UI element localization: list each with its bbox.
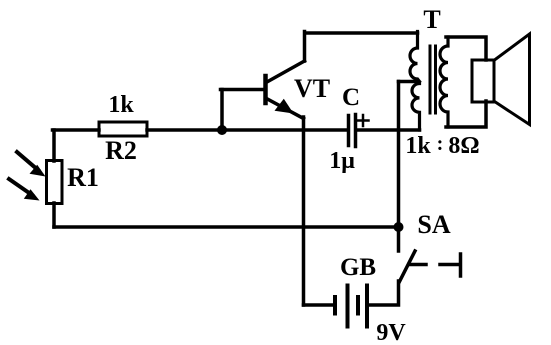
svg-text::: : — [437, 133, 444, 155]
label transformer ratio 1k : 8ohm — [405, 133, 479, 159]
wire SA to battery right — [369, 281, 399, 305]
svg-text:R1: R1 — [67, 163, 99, 192]
wire capacitor to transformer primary bottom — [357, 128, 420, 132]
wire secondary top to speaker — [446, 37, 486, 60]
wire tap vertical down to SA junction — [397, 82, 401, 228]
wire below R1 — [52, 203, 56, 227]
switch SA lever stub — [409, 263, 426, 267]
speaker body rect — [472, 60, 494, 102]
transistor Q VT collector diagonal — [266, 61, 305, 83]
transformer core — [430, 46, 436, 113]
transformer T primary winding upper — [410, 32, 420, 82]
svg-text:1k: 1k — [108, 92, 134, 118]
transformer T secondary winding — [440, 37, 448, 127]
wire top rail collector to transformer — [305, 31, 418, 35]
wire secondary bottom to speaker — [446, 101, 486, 127]
capacitor plus sign — [358, 115, 369, 126]
svg-text:9V: 9V — [376, 320, 406, 345]
svg-text:T: T — [423, 5, 440, 34]
wire left vertical above R1 — [52, 130, 56, 161]
resistor R1 photoresistor body — [47, 161, 63, 204]
wire transformer tap horizontal — [399, 80, 419, 84]
switch SA lever — [400, 251, 416, 282]
svg-text:VT: VT — [294, 74, 330, 103]
node junction dot SA — [394, 222, 404, 232]
light arrow 2 — [9, 179, 40, 201]
wire rail R1 to R2 — [53, 128, 100, 132]
wire base left vertical — [220, 90, 224, 130]
wire collector vertical — [303, 32, 307, 62]
wire rail R2 to capacitor — [147, 128, 346, 132]
svg-text:SA: SA — [417, 210, 450, 239]
switch SA upper terminal — [397, 227, 401, 251]
svg-text:1μ: 1μ — [329, 148, 355, 174]
svg-text:C: C — [342, 84, 360, 111]
svg-text:R2: R2 — [105, 136, 137, 165]
svg-text:1k: 1k — [405, 133, 431, 159]
wire battery left to emitter line — [304, 303, 334, 307]
battery GB plates — [335, 286, 367, 327]
node junction dot base — [217, 125, 227, 135]
wire emitter vertical down to battery — [302, 117, 306, 305]
transformer T primary winding lower — [412, 84, 420, 131]
transistor VT emitter with arrow — [267, 99, 304, 119]
switch SA fixed contact — [440, 254, 461, 276]
svg-text:GB: GB — [340, 254, 376, 281]
wire bottom rail — [54, 225, 398, 229]
transistor VT base bar — [263, 76, 268, 103]
wire base horizontal — [221, 88, 265, 92]
svg-text:8Ω: 8Ω — [448, 133, 479, 159]
light arrow 1 — [17, 152, 46, 177]
capacitor C plates — [349, 115, 356, 147]
resistor R2 body — [99, 122, 147, 136]
speaker horn — [495, 34, 530, 125]
